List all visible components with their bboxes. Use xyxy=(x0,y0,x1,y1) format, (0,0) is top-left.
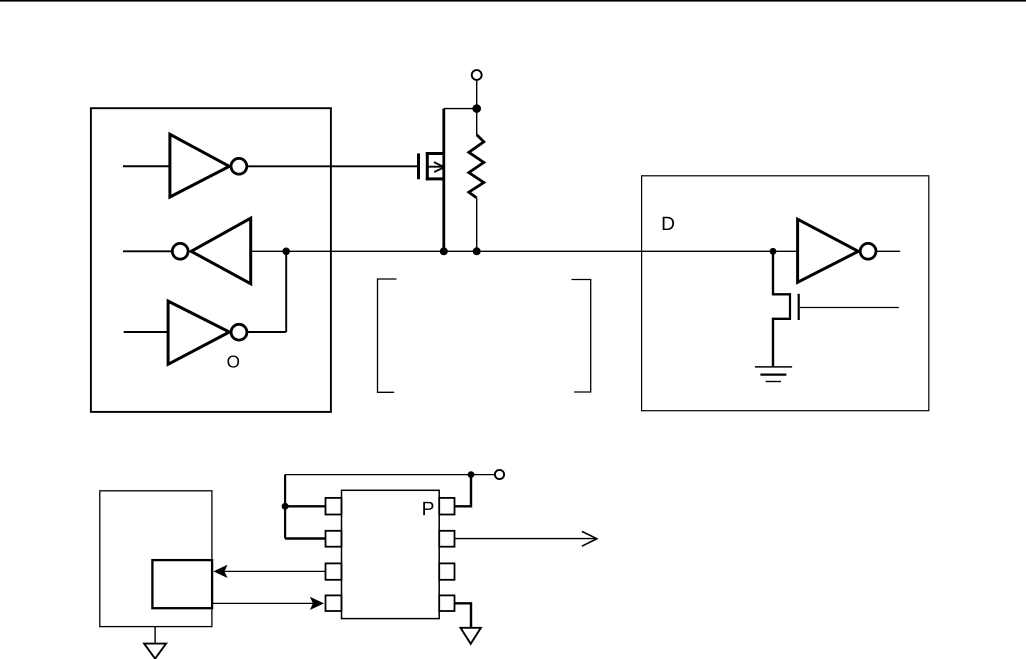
pin 2 xyxy=(326,531,342,547)
wire: pin 7 output arrow line xyxy=(455,538,597,540)
pin 5 xyxy=(439,595,454,611)
page top rule xyxy=(0,0,1026,2)
pin 6 xyxy=(439,563,454,579)
label O xyxy=(227,355,239,367)
arrowhead into sub-block xyxy=(213,565,227,578)
IC U1 body xyxy=(342,490,440,618)
wire: Q2 gate lead xyxy=(800,307,899,309)
node: Q1 source on main line xyxy=(440,247,448,255)
block: sub-block inside controller xyxy=(152,560,212,608)
node: Q2 drain junction xyxy=(770,248,777,255)
wire: pin 2 xyxy=(285,537,326,539)
wire: inverter A1 input xyxy=(123,165,170,167)
transistor Q2 xyxy=(773,251,799,367)
wire: A3 output vertical xyxy=(285,251,287,332)
wire: Q1 drain vertical xyxy=(442,109,445,252)
pin 4 xyxy=(326,595,342,611)
ground: GND1 (in output box) xyxy=(755,367,792,382)
ground: GND2 open triangle xyxy=(144,644,166,659)
block: input buffer box xyxy=(91,108,331,412)
pin 7 xyxy=(439,531,454,547)
wire: pin 5 to ground xyxy=(454,603,471,627)
wire: A1 output to Q1 gate xyxy=(247,165,417,167)
node: resistor top junction xyxy=(472,104,481,113)
pin 3 xyxy=(326,563,342,579)
arrowhead open (output) xyxy=(582,531,597,546)
node: supply junction dot xyxy=(468,471,475,478)
wire: inverter A3 input xyxy=(124,331,169,333)
terminal: supply pin (bottom) xyxy=(495,470,504,479)
bracket right xyxy=(572,280,591,393)
label D xyxy=(663,217,674,230)
resistor R1 xyxy=(469,135,484,198)
inverter A1 xyxy=(170,134,247,197)
node: R1 bottom on main line xyxy=(473,247,481,255)
wire: A2 output (left stub) xyxy=(123,250,172,252)
inverter A2 (faces left) xyxy=(172,218,250,284)
node: junction of A3 output on main line xyxy=(282,248,290,256)
wire: controller ground stub xyxy=(154,627,156,644)
wire: resistor bottom lead xyxy=(476,198,478,251)
wire: pin 1 xyxy=(285,505,326,507)
block: output buffer box xyxy=(642,176,929,411)
wire: top supply line xyxy=(285,474,494,476)
bracket left xyxy=(378,279,397,392)
wire: terminal stub xyxy=(476,80,478,135)
wire: main node line D xyxy=(251,250,798,252)
node: pin1 junction dot xyxy=(282,503,289,510)
block: controller box xyxy=(100,491,212,627)
pin 8 xyxy=(439,498,454,515)
arrowhead into pin 4 xyxy=(310,597,324,610)
wire: pin 8 to supply xyxy=(454,475,471,507)
wire: left vertical bus xyxy=(284,475,286,539)
label P xyxy=(423,502,433,515)
pin 1 xyxy=(326,498,342,515)
terminal: supply pin xyxy=(472,70,482,80)
ground: GND3 open triangle xyxy=(461,628,481,644)
wire: pin 4 arrow line xyxy=(212,602,313,604)
inverter A3 xyxy=(168,301,247,364)
wire: top node horizontal xyxy=(444,108,477,110)
wire: pin 3 arrow line xyxy=(224,570,326,572)
wire: A3 output horizontal xyxy=(247,331,286,333)
inverter A4 xyxy=(798,219,876,282)
wire: A4 output xyxy=(876,250,900,252)
transistor Q1 xyxy=(419,152,444,180)
